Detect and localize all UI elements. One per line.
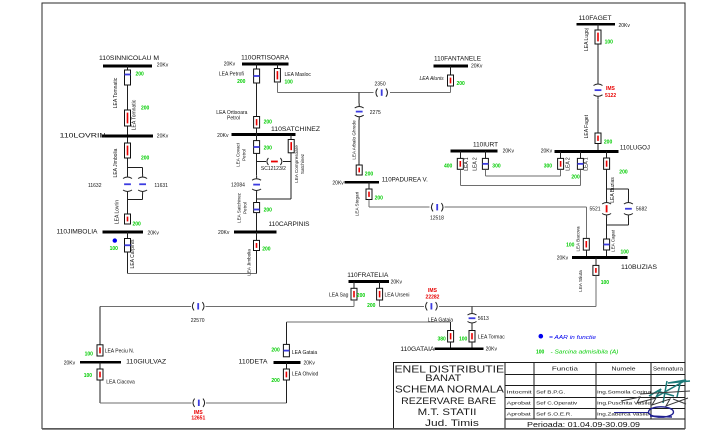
svg-text:Intocmit: Intocmit [507,390,533,395]
svg-text:110FANTANELE: 110FANTANELE [434,56,482,63]
svg-text:20Kv: 20Kv [486,346,498,352]
bus 110FANTANELE 20Kv [434,56,483,70]
svg-text:LEA Sag: LEA Sag [329,293,349,299]
title text ENEL DISTRIBUTIE BANAT [395,364,505,429]
cell LEA Covaci Petrol (110SATCHINEZ) closed [254,141,260,154]
svg-text:300: 300 [492,164,501,170]
wire to Fantanele cell [390,92,451,94]
cell LEA Gataia (110GATAIA) open [448,331,454,343]
wire trunk Sinnicolau-Lovrin [127,66,129,174]
svg-text:SC12123/2: SC12123/2 [261,166,286,172]
wire to Deta cell [206,402,286,404]
signature navy ellipse [614,407,674,417]
cell line cell (110PADUREA V.) open [356,165,362,175]
svg-text:200: 200 [136,72,145,78]
cell LEA Ciacova (110GIULVAZ) open [99,362,101,369]
svg-text:20Kv: 20Kv [157,134,169,140]
svg-text:200: 200 [264,208,273,214]
svg-text:20Kv: 20Kv [541,149,553,155]
svg-text:110FRATELIA: 110FRATELIA [347,272,389,279]
svg-text:LEA Bacova: LEA Bacova [576,226,581,251]
svg-text:Petrol: Petrol [227,116,240,122]
bus 110GIULVAZ 20Kv [64,359,167,367]
svg-text:22282: 22282 [426,294,440,300]
wire Lugoj Buzias feeder split [606,169,608,199]
bus 110BUZIAS 20Kv [557,255,658,271]
svg-text:200: 200 [271,378,280,384]
svg-text:200: 200 [367,303,376,309]
svg-text:BANAT: BANAT [425,373,461,384]
svg-text:IMS: IMS [606,86,616,92]
wire Padurea Verde to Buzias Bacova [368,200,370,208]
svg-text:110SATCHINEZ: 110SATCHINEZ [271,126,320,133]
svg-text:LEA Capat: LEA Capat [611,229,616,252]
svg-text:200: 200 [571,175,580,181]
svg-text:20Kv: 20Kv [64,360,76,366]
disconnector 5682 [624,200,633,219]
signature black scribble [621,391,690,406]
svg-text:200: 200 [141,156,150,162]
svg-text:110JIMBOLIA: 110JIMBOLIA [57,229,99,236]
bus 110FAGET 20Kv [577,15,631,29]
svg-text:LEA Tormac: LEA Tormac [478,334,505,340]
disconnector 2275 [355,104,364,120]
wire Faget to IMS 5122 [597,44,599,81]
svg-text:LEA Lovrin: LEA Lovrin [115,200,121,224]
bus 110SINNICOLAU M 20Kv [99,55,169,69]
svg-text:110DETA: 110DETA [239,359,269,366]
svg-text:Sef S.O.E.R.: Sef S.O.E.R. [536,412,572,417]
svg-text:200: 200 [264,145,273,151]
cell LEA Masloc (110ORTISOARA) open [276,64,278,69]
cell LEA 1 (110IURT) open [459,151,461,158]
svg-text:LEA Peciu N.: LEA Peciu N. [105,349,134,355]
svg-text:Petrol: Petrol [243,202,248,214]
wire cell to Carpinis bus [256,213,258,232]
wire Satchinez trunk to 12084 [256,153,258,175]
svg-text:LEA Faget: LEA Faget [584,114,590,138]
disconnector 11632 [123,174,132,195]
bus 110IURT 20Kv [451,142,515,155]
svg-text:110LOVRIN: 110LOVRIN [60,132,106,139]
svg-text:20Kv: 20Kv [217,133,229,139]
legend AAR in functie [539,334,597,341]
bus 110FRATELIA 20Kv [347,272,402,286]
svg-text:110GIULVAZ: 110GIULVAZ [126,359,166,366]
svg-text:100: 100 [285,80,294,86]
svg-text:Aprobat: Aprobat [507,412,532,417]
AAR in functie dot [113,238,117,242]
svg-text:Satchinez: Satchinez [300,153,305,174]
svg-text:110CARPINIS: 110CARPINIS [269,221,311,228]
cell LEA 2 (110IURT) closed [484,151,486,158]
bus 110JIMBOLIA 20Kv [57,229,160,237]
svg-text:20Kv: 20Kv [332,180,344,186]
wire Buzias to Fratelia Urseni [595,275,597,306]
svg-text:Jud. Timis: Jud. Timis [425,418,479,429]
svg-text:200: 200 [619,170,628,176]
svg-text:LEA Jimbolia: LEA Jimbolia [113,148,119,177]
svg-text:110BUZIAS: 110BUZIAS [621,264,658,271]
svg-text:12084: 12084 [231,182,245,188]
svg-text:- Sarcina admisibila (A): - Sarcina admisibila (A) [551,349,619,355]
wire Ortisoara to Fantanele [276,82,278,93]
disconnector 12084 [252,176,261,194]
cell LEA Compresoare Satchinez (110SATCHINEZ) open [290,135,292,140]
svg-text:LEA Arbalo Ghrede: LEA Arbalo Ghrede [351,120,356,160]
svg-text:LEA Gataia: LEA Gataia [428,317,454,323]
cell LEA Petrofi (110ORTISOARA) closed [254,69,260,83]
svg-text:20Kv: 20Kv [557,255,569,261]
svg-text:100: 100 [536,349,545,355]
disconnector 12518 [431,203,443,211]
svg-text:200: 200 [262,247,271,253]
svg-text:LEA Masloc: LEA Masloc [285,72,312,78]
svg-text:110GATAIA: 110GATAIA [400,346,435,353]
wire bus to cell [256,128,258,141]
svg-text:100: 100 [566,243,575,249]
svg-text:20Kv: 20Kv [503,149,515,155]
svg-text:Semnatura: Semnatura [653,367,683,373]
svg-text:LEA Gataia: LEA Gataia [292,350,318,356]
wire Giulvaz to Fratelia Sag [206,305,355,307]
wire Sag to ring [353,300,355,306]
svg-text:200: 200 [141,106,150,112]
svg-text:22570: 22570 [191,318,205,324]
svg-text:Sef C.Operativ: Sef C.Operativ [536,401,578,406]
title block table texts [507,367,684,429]
disconnector 11631 [138,174,147,195]
cell LEA 1 (110LUGOJ) closed [579,152,581,159]
wire Deta to Gataia [285,322,287,345]
svg-text:110PADUREA V.: 110PADUREA V. [382,176,428,183]
svg-text:200: 200 [457,81,466,87]
svg-text:12651: 12651 [191,415,205,421]
cell LEA Capat (110BUZIAS) closed [604,239,610,250]
svg-text:LEA Jimbolia: LEA Jimbolia [246,249,251,276]
svg-text:LEA 1: LEA 1 [584,157,590,171]
cell LEA Faget (110LUGOJ) open [595,133,601,144]
svg-text:20Kv: 20Kv [224,62,236,68]
svg-text:REZERVARE BARE: REZERVARE BARE [401,396,496,407]
bus 110PADUREA V. 20Kv [332,176,428,186]
svg-text:Aprobat: Aprobat [507,401,532,406]
svg-text:200: 200 [271,348,280,354]
svg-text:5122: 5122 [605,93,616,99]
svg-text:LEA Tomnatic: LEA Tomnatic [113,77,119,108]
cell LEA Alunis (110FANTANELE) open [448,75,454,86]
svg-text:300: 300 [544,164,553,170]
svg-text:100: 100 [85,351,94,357]
svg-text:Perioada: 01.04.09-30.09.09: Perioada: 01.04.09-30.09.09 [527,420,640,429]
wire rejoin to Buzias [606,218,608,239]
svg-text:LEA Satchinez: LEA Satchinez [237,192,242,223]
cell LEA Lugoj (110FAGET) open [595,30,601,44]
wire IURT LEA1 to Lugoj LEA1 [459,169,461,185]
disconnector IMS 22282 [426,302,438,310]
cell LEA Ohviod (110DETA) open [285,363,287,370]
svg-text:M.T. STATII: M.T. STATII [418,407,477,418]
cell LEA Lovrin (110JIMBOLIA) open [125,214,131,224]
svg-text:200: 200 [375,195,384,201]
svg-text:LEA 2: LEA 2 [566,157,572,171]
wire bus to cell [597,24,599,30]
svg-text:LEA Carpinis: LEA Carpinis [130,239,136,268]
svg-text:110FAGET: 110FAGET [579,15,612,22]
svg-text:5682: 5682 [636,206,647,212]
svg-text:= AAR in functie: = AAR in functie [549,335,596,341]
svg-text:200: 200 [264,120,273,126]
cell LEA Urseni (110FRATELIA) open [379,281,381,288]
cell LEA Tormac (110GATAIA) open [469,331,475,343]
title block frame [394,362,686,428]
wire continues to Buzias [445,206,587,208]
wire Giulvaz to Deta [99,380,101,403]
svg-text:110SINNICOLAU M: 110SINNICOLAU M [99,55,159,62]
cell LEA Carpinis (110JIMBOLIA) closed AAR [125,239,131,253]
cell LEA Tomnatic (110SINNICOLAU) closed [125,70,131,85]
svg-text:11631: 11631 [154,183,168,189]
bus 110CARPINIS 20Kv [218,221,310,236]
wire 2275 to Padurea Verde [358,120,360,165]
svg-text:LEA Buzias: LEA Buzias [610,177,616,203]
svg-text:400: 400 [444,164,453,170]
cell LEA Gataia (110DETA) closed [283,344,289,356]
legend Sarcina admisibila [536,349,619,355]
svg-text:380: 380 [438,337,447,343]
svg-text:110ORTISOARA: 110ORTISOARA [241,55,290,62]
wire IURT LEA2 to Lugoj LEA2 [484,169,486,176]
bottom border shading [42,428,685,430]
wire bus to cell [450,66,452,75]
cell LEA Stegari (110PADUREA V.) open [368,182,370,189]
wire trunk Ortisoara-Satchinez [256,64,258,117]
svg-text:LEA Stegari: LEA Stegari [355,192,360,216]
svg-text:LEA Covaci: LEA Covaci [236,143,241,167]
wire bus to cell [127,232,129,239]
cell LEA Tomnatic (110LOVRIN side) open [125,110,131,126]
disconnector IMS 5122 [594,81,603,99]
cell LEA Peciu N. (110GIULVAZ) open [97,345,103,356]
wire junction to 2275 [358,93,360,104]
cell LEA Jimbolia (110CARPINIS) open [256,232,258,240]
svg-text:100: 100 [605,40,614,46]
svg-text:200: 200 [604,139,613,145]
svg-text:200: 200 [133,221,142,227]
svg-text:IMS: IMS [428,288,438,294]
disconnector IMS 12651 [193,399,205,407]
svg-text:Numele: Numele [612,367,636,373]
svg-text:20Kv: 20Kv [619,23,631,29]
svg-text:LEA Tomnatic: LEA Tomnatic [132,99,138,130]
svg-text:100: 100 [621,249,630,255]
svg-text:20Kv: 20Kv [391,279,403,285]
svg-text:12518: 12518 [430,215,444,221]
disconnector 22570 [192,302,204,310]
bus 110DETA 20Kv [239,359,316,367]
svg-text:LEA 2: LEA 2 [473,157,479,171]
cell LEA Bacova (110BUZIAS) open [583,238,589,250]
svg-text:LEA Ohviod: LEA Ohviod [292,372,319,378]
wire rejoin below disconnectors [127,195,129,215]
signature teal scribble [649,380,690,403]
svg-text:20Kv: 20Kv [148,230,160,236]
svg-text:20Kv: 20Kv [471,64,483,70]
bus 110ORTISOARA 20Kv [224,55,290,68]
wire split to parallel disconnectors [128,166,143,168]
svg-text:LEA Ciacova: LEA Ciacova [106,380,135,386]
disconnector 5613 [468,311,477,327]
svg-text:LEA Lugoj: LEA Lugoj [584,28,590,51]
bus 110LOVRIN 20Kv [60,132,169,139]
svg-text:200: 200 [357,293,366,299]
svg-text:100: 100 [84,373,93,379]
cell LEA Sag (110FRATELIA) open [353,281,355,288]
wire IMS 5122 to Lugoj cell [597,99,599,133]
svg-text:110IURT: 110IURT [473,142,498,149]
bus 110SATCHINEZ 20Kv [217,126,320,139]
bus 110GATAIA 20Kv [400,346,497,353]
wire 5613 to Gataia cell [471,326,473,331]
svg-text:LEA Urseni: LEA Urseni [385,293,410,299]
svg-text:20Kv: 20Kv [218,230,230,236]
svg-text:200: 200 [365,171,374,177]
disconnector 2350 [376,88,388,96]
wire cells to Gataia bus [450,342,452,349]
svg-text:20Kv: 20Kv [157,63,169,69]
svg-text:SCHEMA NORMALA: SCHEMA NORMALA [395,384,504,395]
wire bypass Compresoare [290,153,292,199]
svg-text:LEA 1: LEA 1 [464,157,470,171]
svg-text:2275: 2275 [370,110,381,116]
wire cells to Buzias bus [585,250,587,257]
svg-text:20Kv: 20Kv [304,360,316,366]
svg-text:LEA Alunis: LEA Alunis [420,76,445,82]
svg-text:LEA Petrofi: LEA Petrofi [219,72,244,78]
svg-text:5521: 5521 [589,206,600,212]
svg-text:LEA Compresoare: LEA Compresoare [294,145,299,183]
bus 110LUGOJ 20Kv [541,144,650,154]
cell LEA Ortisoara Petrol (110SATCHINEZ) open [254,117,260,129]
wire Jimbolia to Carpinis [127,252,129,273]
svg-text:100: 100 [110,246,119,252]
svg-text:5613: 5613 [478,316,489,322]
cell LEA 2 (110LUGOJ) open [560,152,562,159]
disconnector 5521 open [602,200,611,219]
svg-text:Petrol: Petrol [242,149,247,161]
cell LEA Jimbolia (110LOVRIN) open [125,143,131,158]
svg-text:LEA Stiuta: LEA Stiuta [578,270,583,292]
svg-text:Sef B.P.G.: Sef B.P.G. [536,390,565,395]
svg-text:100: 100 [459,337,468,343]
series compensation SC12123/2 [257,161,266,163]
svg-text:Functia: Functia [552,367,578,373]
svg-text:11632: 11632 [88,183,102,189]
cell LEA Stiuta (110BUZIAS) open [595,258,597,266]
cell LEA Buzias (110LUGOJ) open [606,152,608,159]
junction 5613 tap [471,306,473,310]
svg-text:110LUGOJ: 110LUGOJ [620,144,650,151]
svg-text:2350: 2350 [375,82,386,88]
svg-text:100: 100 [601,280,610,286]
cell line Satchinez (110CARPINIS) closed [254,203,260,213]
svg-text:200: 200 [237,79,246,85]
